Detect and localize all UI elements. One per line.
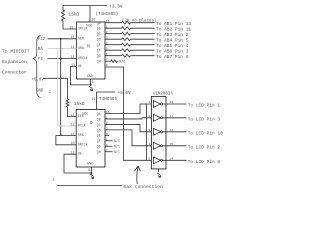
- svg-text:To LCD Pin 1: To LCD Pin 1: [188, 103, 221, 109]
- svg-text:SER: SER: [78, 114, 84, 118]
- U3 output pin 16 wire: [163, 131, 187, 133]
- svg-text:8: 8: [92, 80, 94, 84]
- svg-text:18: 18: [170, 100, 174, 104]
- wire net F12 to U1 pin 15: [48, 38, 77, 40]
- wire resistor to AB4: [131, 38, 155, 40]
- series resistor 2K row 6: [122, 49, 131, 52]
- link wire to U2 pin 10: [56, 135, 76, 144]
- svg-text:QE: QE: [97, 43, 101, 47]
- stub U2 QE: [105, 134, 109, 136]
- IC U2 74HC595 body: [76, 110, 105, 168]
- U3 output pin 18 wire: [163, 103, 187, 105]
- ground flash for U2: [90, 174, 93, 179]
- svg-text:15: 15: [170, 142, 174, 146]
- buffer 1 of U3: [153, 101, 160, 108]
- svg-text:(2K ×8 places): (2K ×8 places): [122, 18, 156, 23]
- svg-text:To MIDIBIT: To MIDIBIT: [2, 48, 30, 54]
- svg-text:4: 4: [148, 142, 150, 146]
- svg-text:To AB1 Pin 13: To AB1 Pin 13: [156, 21, 191, 27]
- svg-text:QH: QH: [97, 150, 101, 154]
- ground flash for U3: [157, 173, 160, 178]
- svg-text:ULN2803A: ULN2803A: [153, 92, 173, 96]
- wire resistor to AB5: [131, 44, 155, 46]
- svg-text:To LCD Pin 8: To LCD Pin 8: [188, 159, 221, 165]
- wire U2 QD to buffer 4: [105, 130, 151, 146]
- U2 OE tie wire: [64, 154, 91, 173]
- wire into U2 pin 12: [56, 134, 76, 136]
- svg-text:+3.3V: +3.3V: [109, 4, 123, 10]
- wire +5.0V from connector to R2: [44, 78, 68, 99]
- svg-text:QG: QG: [97, 54, 101, 58]
- series resistor 2K row 7: [122, 54, 131, 57]
- ground flash for U1: [89, 86, 92, 91]
- svg-text:OE: OE: [78, 64, 82, 68]
- stub U2 QG N/C: [105, 145, 113, 147]
- U1 QH' cascade wire: [105, 67, 151, 160]
- IC U1 74HC595 body: [76, 22, 105, 79]
- svg-text:16: 16: [91, 18, 95, 22]
- svg-text:To AB2 Pin 11: To AB2 Pin 11: [156, 27, 191, 33]
- svg-text:SRCLR: SRCLR: [78, 27, 88, 31]
- svg-text:To LCD Pin 10: To LCD Pin 10: [188, 130, 223, 136]
- U3 output pin 17 wire: [163, 117, 187, 119]
- svg-text:N/C: N/C: [114, 139, 120, 143]
- stub U2 QH N/C: [105, 151, 113, 153]
- svg-text:GND: GND: [87, 75, 93, 79]
- series resistor 2K row 4: [122, 38, 131, 41]
- wire resistor to AB2: [131, 27, 155, 29]
- series resistor 2K row 5: [122, 43, 131, 46]
- stub U2 QF N/C: [105, 140, 113, 142]
- resistor R1 15k: [62, 10, 65, 21]
- wire U2 QA to buffer 1: [105, 104, 151, 114]
- svg-text:QC: QC: [97, 123, 101, 127]
- svg-text:9: 9: [153, 165, 155, 169]
- svg-text:QC: QC: [97, 32, 101, 36]
- svg-text:3: 3: [148, 128, 150, 132]
- svg-text:17: 17: [170, 114, 174, 118]
- +5.0V rail wire to U2 VCC: [97, 92, 116, 110]
- junction F12 vertical: [60, 38, 62, 40]
- wire U2 QB to buffer 2: [105, 118, 151, 119]
- svg-text:QB: QB: [97, 27, 101, 31]
- wire net F4 to U1 pin 11: [48, 58, 77, 60]
- series resistor 2K row 2: [122, 27, 131, 30]
- svg-text:12: 12: [71, 132, 75, 136]
- U1 OE tie wire: [70, 67, 90, 85]
- svg-text:SRK: SRK: [78, 133, 84, 137]
- svg-text:16: 16: [92, 97, 96, 101]
- svg-text:QG: QG: [97, 145, 101, 149]
- input bus vertical wire: [146, 104, 148, 160]
- wire +3.3V rail to resistor R1: [62, 6, 64, 11]
- wire R1 to U1 pin 10: [63, 21, 76, 29]
- svg-text:To AB4 Pin 5: To AB4 Pin 5: [156, 38, 189, 44]
- small resistor row 8: [111, 60, 118, 63]
- svg-text:QA: QA: [97, 21, 101, 25]
- svg-text:OE: OE: [78, 152, 82, 156]
- svg-text:16: 16: [170, 128, 174, 132]
- wire resistor to AB7: [131, 55, 155, 57]
- junction F4 vertical: [60, 58, 62, 60]
- svg-text:SRCLK: SRCLK: [78, 56, 88, 60]
- svg-text:SRA: SRA: [78, 46, 84, 50]
- svg-text:To LCD Pin 2: To LCD Pin 2: [188, 144, 221, 150]
- svg-text:QF: QF: [97, 139, 101, 143]
- svg-text:1: 1: [148, 100, 150, 104]
- connector brace: [33, 36, 40, 98]
- wire U2 QC to buffer 3: [105, 124, 151, 131]
- svg-text:QA: QA: [97, 112, 101, 116]
- svg-text:11: 11: [71, 122, 75, 126]
- junction U1 gnd: [90, 84, 92, 86]
- IC U3 ULN2803A body: [151, 96, 166, 168]
- buffer 4 of U3: [153, 142, 160, 149]
- svg-text:15kΩ: 15kΩ: [69, 13, 80, 18]
- buffer 3 of U3: [153, 128, 160, 135]
- wire net RA to U1 pin 14 grey: [48, 47, 77, 49]
- svg-text:To AB3 Pin 2: To AB3 Pin 2: [156, 32, 189, 38]
- svg-text:max connection: max connection: [124, 184, 164, 190]
- junction U2 gnd: [90, 172, 92, 174]
- svg-text:D: D: [90, 120, 93, 126]
- svg-text:QD: QD: [97, 128, 101, 132]
- svg-text:SER: SER: [78, 36, 84, 40]
- svg-text:GND: GND: [87, 163, 93, 167]
- bottom wire: [57, 185, 122, 187]
- svg-text:To AB5 Pin 4: To AB5 Pin 4: [156, 43, 189, 49]
- buffer 5 of U3: [153, 157, 160, 164]
- svg-text:Expansion: Expansion: [2, 59, 27, 65]
- svg-text:M: M: [87, 44, 90, 50]
- power rail +3.3V wire: [63, 5, 107, 7]
- series resistor 2K row 3: [122, 32, 131, 35]
- svg-text:RCLK: RCLK: [78, 124, 86, 128]
- junction bus to U2 pin 12 wire: [60, 135, 62, 137]
- svg-text:3: 3: [49, 90, 51, 94]
- svg-text:14: 14: [71, 45, 75, 49]
- svg-text:2: 2: [148, 114, 150, 118]
- wire resistor to AB6: [131, 49, 155, 51]
- svg-text:10: 10: [69, 25, 73, 29]
- svg-text:N/C: N/C: [114, 150, 120, 154]
- svg-text:8: 8: [88, 168, 90, 172]
- wire R2 to U2 pin 14: [68, 107, 77, 117]
- svg-text:15kΩ: 15kΩ: [74, 102, 85, 107]
- U3 output pin 14 wire: [163, 159, 187, 161]
- buffer 2 of U3: [153, 114, 160, 121]
- wire resistor to AB3: [131, 33, 155, 35]
- series resistor 2K row 1: [122, 21, 131, 24]
- svg-text:74HC595: 74HC595: [99, 97, 117, 102]
- U1 VCC stub wire: [89, 6, 91, 23]
- svg-text:15: 15: [71, 35, 75, 39]
- vertical wire RA to U2 pin 11 grey: [58, 48, 76, 126]
- svg-text:N/C: N/C: [119, 60, 125, 64]
- svg-text:QF: QF: [97, 49, 101, 53]
- resistor R2 15k: [66, 99, 69, 107]
- svg-text:SRCLK: SRCLK: [78, 142, 88, 146]
- svg-text:14: 14: [170, 157, 174, 161]
- svg-text:To AB6 Pin 3: To AB6 Pin 3: [156, 49, 189, 55]
- U3 GND stub: [158, 169, 160, 172]
- wire resistor to AB1: [131, 22, 155, 24]
- svg-text:13: 13: [71, 63, 75, 67]
- svg-text:(74HC595): (74HC595): [96, 12, 119, 17]
- svg-text:10: 10: [71, 141, 75, 145]
- vertical bus wire F12/F4 to U2 pin 12: [60, 39, 62, 136]
- svg-text:GND: GND: [36, 89, 44, 93]
- svg-text:QB: QB: [97, 117, 101, 121]
- svg-text:+5.0V: +5.0V: [118, 91, 132, 96]
- svg-text:11: 11: [71, 55, 75, 59]
- svg-text:QD: QD: [97, 38, 101, 42]
- svg-text:To AB7 Pin 6: To AB7 Pin 6: [156, 54, 189, 60]
- svg-text:+5.0V: +5.0V: [32, 78, 45, 82]
- svg-text:To LCD Pin 3: To LCD Pin 3: [188, 116, 221, 122]
- svg-text:F12: F12: [38, 38, 46, 42]
- svg-text:QE: QE: [97, 134, 101, 138]
- svg-text:5: 5: [148, 157, 150, 161]
- U3 output pin 15 wire: [163, 145, 187, 147]
- svg-text:QH: QH: [97, 60, 101, 64]
- svg-text:9: 9: [106, 63, 108, 67]
- svg-text:Connector: Connector: [2, 69, 27, 75]
- svg-text:2: 2: [52, 178, 54, 182]
- svg-text:RA: RA: [38, 48, 44, 52]
- svg-text:14: 14: [71, 113, 75, 117]
- svg-text:F4: F4: [38, 58, 44, 62]
- U1 GND stub wire: [90, 79, 92, 85]
- U2 GND stub: [90, 167, 92, 173]
- svg-text:N/C: N/C: [114, 145, 120, 149]
- max connection arrow: [135, 166, 141, 184]
